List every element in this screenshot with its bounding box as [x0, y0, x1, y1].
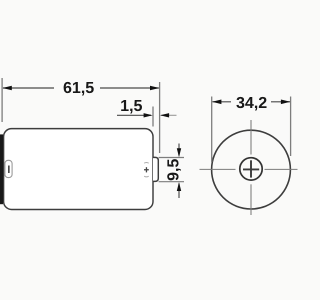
end view hub circle — [240, 158, 262, 180]
dimension 34,2 : value label — [236, 97, 266, 111]
positive terminal marker — [144, 163, 149, 177]
dimension 1,5 : right arrow (outside, pointing left) — [161, 114, 177, 116]
dimension 34,2 : left extension line — [211, 97, 213, 163]
dimension 61,5 : right extension line — [159, 82, 161, 153]
negative terminal marker — [5, 160, 12, 177]
dimension 1,5 : left extension line — [152, 107, 154, 127]
dimension 9,5 : bottom extension line — [159, 181, 184, 183]
dimension 61,5 : left arrowhead — [2, 86, 11, 91]
centerline horizontal thin dashes — [200, 168, 236, 170]
dimension 34,2 : right arrowhead — [281, 100, 290, 105]
dimension 61,5 : dimension line — [3, 87, 54, 89]
dimension 61,5 : value label — [64, 82, 94, 96]
dimension 9,5 : value label (rotated) — [167, 159, 181, 180]
dimension 34,2 : dimension line — [213, 101, 232, 103]
dimension 61,5 : right arrowhead — [150, 86, 159, 91]
centerline vertical thin dashes — [250, 120, 252, 155]
dimension 9,5 : bottom arrow (outside, pointing up) — [178, 184, 180, 199]
battery body outline (side view) — [4, 129, 153, 210]
dimension 1,5 : left arrow (outside, pointing right) — [117, 114, 151, 116]
end view outer circle — [212, 130, 291, 209]
dimension 9,5 : top extension line — [159, 157, 184, 159]
dimension 34,2 : left arrowhead — [212, 100, 221, 105]
dimension 1,5 : value label — [121, 100, 142, 113]
dimension 61,5 : left extension line — [1, 78, 3, 122]
dimension 9,5 : top arrow (outside, pointing down) — [178, 144, 180, 156]
negative end cap bar — [0, 134, 3, 204]
center cross vertical — [250, 160, 252, 177]
center cross horizontal — [243, 168, 259, 170]
positive nub — [153, 157, 158, 181]
dimension 34,2 : right extension line — [290, 97, 292, 157]
